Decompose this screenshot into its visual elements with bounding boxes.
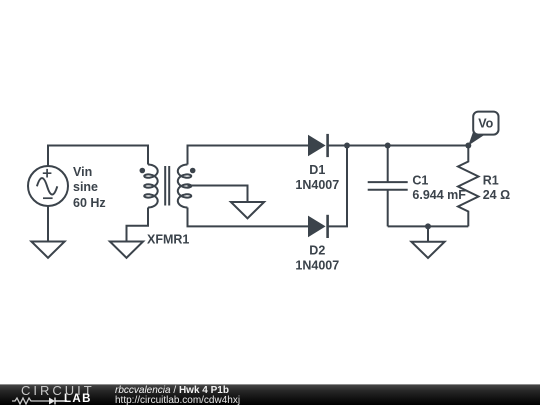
footer url line <box>115 396 240 406</box>
svg-text:R1: R1 <box>483 174 499 188</box>
svg-text:60 Hz: 60 Hz <box>73 196 106 210</box>
footer attribution line <box>115 386 229 396</box>
node Vo flag pointer <box>468 131 485 146</box>
ground at center tap <box>231 202 264 218</box>
wire secondary center tap <box>188 186 248 203</box>
label D1 1N4007 <box>295 163 339 192</box>
junction dot bottom rail <box>425 223 431 229</box>
wire D2 cathode riser <box>328 146 347 227</box>
label Vin sine 60 Hz <box>73 165 106 210</box>
voltage source V1 circle <box>28 166 68 206</box>
voltage source V1 plus <box>43 169 52 178</box>
svg-text:sine: sine <box>73 180 98 194</box>
polarity dot primary <box>140 168 146 174</box>
transformer XFMR1 secondary winding <box>178 165 191 208</box>
svg-text:XFMR1: XFMR1 <box>147 233 189 247</box>
CircuitLab logo resistor and diode glyph <box>10 396 68 406</box>
transformer core <box>165 166 169 206</box>
polarity dot secondary <box>190 168 196 174</box>
wire primary bottom <box>127 208 149 242</box>
svg-text:1N4007: 1N4007 <box>295 259 339 273</box>
node Vo flag box <box>473 112 498 135</box>
resistor R1 <box>458 146 479 227</box>
svg-text:C1: C1 <box>412 174 428 188</box>
diode D1 <box>308 134 328 157</box>
voltage source V1 minus <box>43 197 53 199</box>
ground below bottom rail <box>411 242 444 258</box>
ground below source <box>31 242 64 258</box>
wire primary top loop <box>48 146 148 167</box>
diode D2 <box>308 215 328 238</box>
CircuitLab logo text LAB <box>64 395 92 404</box>
voltage source V1 sine <box>37 178 57 195</box>
label R1 24 ohm <box>483 174 510 202</box>
wire ground stem bottom rail <box>427 226 429 241</box>
svg-text:D2: D2 <box>309 243 325 257</box>
svg-text:1N4007: 1N4007 <box>295 178 339 192</box>
wire D1 cathode to resistor top <box>328 145 469 147</box>
ground below transformer primary <box>110 242 143 258</box>
junction dot resistor top <box>465 143 471 149</box>
wire secondary bottom to D2 <box>188 208 309 227</box>
transformer XFMR1 primary winding <box>144 165 157 208</box>
label D2 1N4007 <box>295 243 339 272</box>
wire source bottom <box>47 206 49 242</box>
svg-text:Vo: Vo <box>478 117 493 131</box>
junction dot D1 cathode <box>344 143 350 149</box>
svg-text:6.944 mF: 6.944 mF <box>412 188 466 202</box>
svg-text:24 Ω: 24 Ω <box>483 188 510 202</box>
CircuitLab logo text CIRCUIT <box>21 386 95 396</box>
label C1 6.944 mF <box>412 174 466 202</box>
footer bar <box>0 384 540 405</box>
wire secondary top to D1 <box>188 146 309 165</box>
wire bottom rail capacitor to resistor <box>388 225 469 227</box>
capacitor C1 <box>368 146 408 227</box>
svg-text:Vin: Vin <box>73 165 92 179</box>
svg-text:D1: D1 <box>309 163 325 177</box>
junction dot capacitor top <box>385 143 391 149</box>
